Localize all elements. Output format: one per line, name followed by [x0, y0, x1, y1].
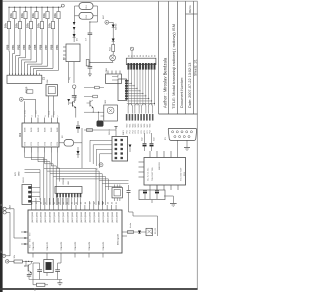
svg-text:OT1: OT1 [31, 142, 33, 146]
svg-text:868: 868 [68, 181, 70, 184]
svg-text:(ADC4)PA4: (ADC4)PA4 [84, 211, 87, 222]
svg-text:XTAL2/P2: XTAL2/P2 [60, 242, 63, 251]
svg-text:(ADC2)PA2: (ADC2)PA2 [75, 211, 78, 222]
capacitor C15 (polarized) [155, 190, 159, 192]
wire [9, 212, 11, 256]
pin circle [99, 163, 103, 167]
DB9 connector P1 [168, 129, 196, 141]
wire [172, 196, 174, 204]
U1 top pin 14 [88, 205, 90, 210]
svg-text:K6: K6 [146, 55, 148, 57]
bus from IC2 bottom to right [24, 153, 26, 158]
input jack J2 [6, 260, 9, 263]
wire [53, 96, 55, 118]
resistor R4 10k [25, 7, 27, 11]
svg-text:3: 3 [32, 116, 34, 117]
svg-text:(ADC3)PA3: (ADC3)PA3 [80, 211, 83, 222]
IC U2 bottom pin 4 [44, 147, 46, 153]
wire [73, 62, 75, 83]
wire [90, 21, 98, 23]
svg-text:(ADC5)PA5: (ADC5)PA5 [53, 211, 56, 222]
ISP wire [90, 139, 112, 141]
svg-text:(ADC3)PA3: (ADC3)PA3 [115, 211, 118, 222]
wire [24, 101, 26, 117]
svg-text:C1+ V+ C1- C2+: C1+ V+ C1- C2+ [148, 168, 150, 181]
pin circle left2 [2, 254, 5, 257]
U1 top pin 19 [111, 205, 113, 210]
wire [149, 190, 151, 199]
MCU top wires [31, 198, 33, 205]
svg-text:OT3: OT3 [45, 142, 47, 146]
IC U2 top pin 4 [44, 118, 46, 124]
svg-text:6: 6 [52, 116, 54, 117]
svg-text:(ADC5)PA5: (ADC5)PA5 [89, 211, 92, 222]
U1 bottom pin 5 [88, 253, 90, 258]
svg-text:RL1: RL1 [86, 5, 88, 8]
staircase drop wires [127, 81, 129, 106]
svg-text:MIC8: MIC8 [150, 124, 152, 128]
IC U2 top pin 3 [37, 118, 39, 124]
svg-text:7: 7 [58, 116, 60, 117]
wire [6, 208, 14, 210]
wire [176, 140, 178, 157]
capacitor C9 [72, 95, 77, 97]
capacitor C7 [89, 22, 91, 33]
svg-text:(ADC1)PA1: (ADC1)PA1 [71, 211, 74, 222]
diode D5 [139, 229, 141, 232]
capacitor C18 [55, 269, 60, 271]
svg-text:OT2: OT2 [38, 142, 40, 146]
U1 bottom pin 1 [32, 253, 34, 258]
svg-text:XTAL3/P3: XTAL3/P3 [74, 242, 77, 251]
svg-text:IN3B: IN3B [45, 127, 47, 132]
svg-text:PC0: PC0 [127, 130, 129, 133]
capacitor C16 [127, 190, 131, 192]
svg-text:10k: 10k [4, 23, 8, 28]
IC U2 top pin 1 [24, 118, 26, 124]
U1 left pin 3 [21, 243, 28, 245]
resistor R12 [112, 42, 114, 45]
resistor R7 10k [41, 7, 43, 21]
ground [170, 203, 177, 205]
VCC arrow small [67, 99, 70, 102]
wire [186, 140, 188, 147]
wire [79, 142, 83, 144]
pin circle left [3, 207, 6, 210]
svg-text:(ADC0)PA0: (ADC0)PA0 [66, 211, 69, 222]
U1 top pin 17 [102, 205, 104, 210]
diode D3 [112, 39, 115, 42]
svg-text:MIC5: MIC5 [141, 124, 143, 128]
wire [13, 209, 15, 238]
capacitor C10 (polarized) [76, 125, 80, 127]
svg-text:(ADC7)PA7: (ADC7)PA7 [98, 211, 101, 222]
svg-text:(ADC4)PA4: (ADC4)PA4 [49, 211, 52, 222]
svg-text:4: 4 [37, 116, 40, 117]
wire [75, 96, 77, 101]
svg-text:10k: 10k [20, 13, 24, 18]
svg-text:VCC GND T1OT: VCC GND T1OT [180, 167, 182, 181]
svg-text:OT5: OT5 [57, 142, 59, 146]
capacitor C12 (polarized) [143, 143, 147, 145]
svg-text:(ADC7)PA7: (ADC7)PA7 [62, 211, 65, 222]
pin circle P [19, 97, 23, 101]
svg-text:(ADC2)PA2: (ADC2)PA2 [40, 211, 43, 222]
relay coil/fuse F1 [79, 3, 93, 10]
svg-text:PC3: PC3 [135, 130, 137, 133]
U1 top pin 13 [84, 205, 86, 210]
U1 top pin 8 [62, 205, 64, 210]
cap C19 [27, 274, 31, 276]
resistor R17 [14, 260, 22, 263]
IC U2 bottom pin 2 [30, 147, 32, 153]
sheet border top [3, 0, 198, 2]
dark component blob [97, 121, 103, 127]
pin fence strip [126, 114, 127, 120]
svg-text:MIC6: MIC6 [144, 124, 146, 128]
sheet border right [196, 1, 198, 288]
ground [184, 147, 190, 149]
IC U3 [66, 44, 80, 62]
wire [164, 195, 173, 197]
U1 top pin 11 [75, 205, 77, 210]
wire [151, 200, 153, 203]
jog wires to Q2 area [99, 180, 128, 182]
wire vertical [81, 128, 83, 168]
jack X3 [146, 228, 152, 235]
svg-text:PC5: PC5 [141, 130, 143, 133]
capacitor C11 [115, 127, 117, 130]
resistor R13 [86, 60, 89, 66]
svg-text:C12: C12 [142, 138, 144, 141]
svg-text:REVs: REVs [188, 5, 192, 13]
U1 top pin 16 [97, 205, 99, 210]
svg-text:K7: K7 [149, 55, 151, 57]
staircase K2 to K3 [127, 80, 129, 82]
svg-text:XTAL4/P4: XTAL4/P4 [88, 241, 91, 251]
IC U2 bottom pin 1 [24, 147, 26, 153]
svg-text:ATmega16: ATmega16 [117, 233, 120, 245]
svg-text:IN0B: IN0B [25, 127, 27, 132]
diode D1 [73, 30, 75, 42]
IC U2 bottom pin 3 [37, 147, 39, 153]
ground rail [33, 279, 62, 281]
svg-text:(ADC1)PA1: (ADC1)PA1 [35, 211, 38, 222]
svg-text:MIC0: MIC0 [127, 124, 129, 128]
IC U2 top pin 2 [30, 118, 32, 124]
U1 bottom pin 3 [60, 253, 62, 258]
diode D4 [77, 151, 80, 154]
U1 top pin 15 [93, 205, 95, 210]
svg-text:K3: K3 [137, 55, 139, 57]
wire [6, 211, 10, 213]
VCC circle [73, 85, 76, 88]
U1 top pin 20 [115, 205, 117, 210]
vertical bus x44-53 down [43, 169, 45, 206]
resistor R14 [87, 129, 93, 132]
transistor T4 [27, 265, 29, 272]
wire [32, 263, 34, 285]
ground [58, 279, 61, 281]
IC U1 (microcontroller) box [28, 210, 122, 253]
U1 top pin 7 [57, 205, 59, 210]
svg-text:10k: 10k [31, 13, 35, 18]
relay coil/fuse F2 [79, 12, 93, 19]
ISP wire [96, 148, 112, 150]
sheet border bottom [0, 288, 198, 290]
VCC arrow [129, 145, 132, 148]
capacitor C13 (polarized) [150, 143, 154, 145]
transistor T2 [110, 55, 116, 61]
svg-text:XTAL0/P0: XTAL0/P0 [32, 242, 35, 251]
U1 right pin 1 [122, 231, 127, 233]
horizontal bus lines [44, 168, 96, 170]
svg-text:IN2B: IN2B [38, 127, 40, 132]
resistor R6 10k [36, 7, 38, 11]
U1 top pin 4 [44, 205, 46, 210]
wire from MAX to MCU [129, 211, 134, 213]
svg-text:Document Number:: Document Number: [180, 77, 184, 108]
transistor T3 [72, 102, 74, 107]
resistor R10 10k [58, 7, 60, 11]
wire VCC to K3 [131, 51, 133, 58]
IC U2 top pin 5 [50, 118, 52, 124]
svg-text:10k: 10k [37, 23, 41, 28]
svg-text:10k: 10k [15, 23, 19, 28]
svg-text:K1: K1 [131, 55, 133, 57]
svg-text:10k: 10k [42, 13, 46, 18]
IC U2 box [22, 123, 59, 147]
svg-text:K0: K0 [128, 55, 130, 57]
U1 bottom pin 6 [102, 253, 104, 258]
svg-text:IC2: IC2 [18, 132, 22, 137]
svg-text:(ADC3)PA3: (ADC3)PA3 [44, 211, 47, 222]
wire to M1 [84, 111, 104, 113]
U1 bottom pin 4 [74, 253, 76, 258]
svg-text:XTAL1/P1: XTAL1/P1 [46, 242, 49, 251]
svg-text:IN5B: IN5B [57, 127, 59, 132]
resistor R16 [37, 283, 45, 286]
U1 top pin 18 [106, 205, 108, 210]
svg-text:K5: K5 [143, 55, 145, 57]
wire [74, 6, 76, 22]
svg-text:Date: 2007-07-22 13:02:13: Date: 2007-07-22 13:02:13 [188, 63, 192, 108]
IC U5 MAX232 box [144, 158, 186, 186]
crystal Y1 [46, 258, 48, 260]
svg-text:GOLD: GOLD [23, 177, 25, 183]
U1 top pin 1 [31, 205, 33, 210]
svg-text:IRIN: IRIN [25, 110, 27, 114]
resistor R18 [95, 86, 100, 89]
svg-text:1M: 1M [35, 288, 37, 291]
svg-text:PC2: PC2 [132, 130, 134, 133]
svg-text:RL2: RL2 [86, 15, 88, 18]
svg-text:GOLD: GOLD [109, 129, 111, 135]
wire [97, 16, 99, 22]
title block bottom edge [159, 113, 198, 115]
svg-text:PC8: PC8 [150, 130, 152, 133]
svg-text:OT0: OT0 [25, 142, 27, 146]
capacitor C8 [89, 42, 91, 67]
IC U2 bottom pin 6 [56, 147, 58, 153]
svg-text:RS_RX: RS_RX [155, 227, 157, 234]
wires top-left of SV4 [25, 169, 41, 171]
svg-text:(ADC0)PA0: (ADC0)PA0 [102, 211, 105, 222]
title block frame [158, 1, 160, 114]
VCC bus wire [9, 6, 61, 8]
svg-text:R1IN: R1IN [184, 171, 186, 176]
svg-text:K9: K9 [155, 55, 157, 57]
svg-text:BAT42: BAT42 [115, 23, 118, 30]
wires into K2 left [112, 76, 118, 78]
IC U4 [46, 85, 57, 96]
IC U2 top pin 6 [56, 118, 58, 124]
svg-text:RX1: RX1 [30, 239, 32, 242]
resistor R8 10k [47, 7, 49, 11]
IC U2 bottom pin 5 [50, 147, 52, 153]
svg-text:SDA: SDA [48, 110, 51, 115]
ISP wire [93, 144, 112, 146]
svg-text:IN1B: IN1B [31, 127, 33, 132]
resistor R1 10k [8, 7, 10, 21]
svg-text:T1IN R1OT T2IN: T1IN R1OT T2IN [152, 167, 154, 181]
VCC symbol [61, 4, 64, 7]
svg-text:Sheets: 1/1: Sheets: 1/1 [194, 59, 198, 76]
svg-text:GND: GND [19, 171, 21, 176]
svg-text:(ADC0)PA0: (ADC0)PA0 [31, 211, 34, 222]
wire to ISP pull [84, 129, 116, 131]
svg-text:Author : Miroslav Bendzala: Author : Miroslav Bendzala [163, 57, 168, 108]
wire [90, 61, 113, 63]
svg-text:(ADC6)PA6: (ADC6)PA6 [58, 211, 61, 222]
socket strip row (scallops) [128, 104, 132, 108]
connector Z1 (12-pin header) [7, 75, 42, 83]
svg-text:(ADC6)PA6: (ADC6)PA6 [93, 211, 96, 222]
svg-text:MAX232: MAX232 [158, 161, 161, 170]
capacitor C14 (polarized) [143, 190, 147, 192]
U1 left pin 2 [21, 237, 28, 239]
resistor R2 10k [14, 7, 16, 11]
wire staircase resistors to connector Z1 [8, 42, 10, 52]
cap group outline [139, 190, 165, 200]
ISP wire [100, 153, 112, 155]
ground [88, 73, 92, 75]
wire [23, 98, 35, 100]
small box [27, 90, 33, 93]
svg-text:TITLE: Modul transmisji radio: TITLE: Modul transmisji radiowej ( radio… [171, 24, 176, 109]
wire [109, 21, 114, 23]
resistor R19 [93, 95, 98, 98]
U1 top pin 10 [71, 205, 73, 210]
svg-text:10k: 10k [9, 13, 13, 18]
svg-text:MIC2: MIC2 [132, 124, 134, 128]
U1 right pin 2 [122, 235, 127, 237]
svg-text:MIC1: MIC1 [129, 124, 131, 128]
svg-text:10k: 10k [48, 23, 52, 28]
wire [14, 237, 21, 239]
svg-text:K2: K2 [134, 55, 136, 57]
resistor R15 [127, 231, 146, 233]
svg-text:K8: K8 [152, 55, 154, 57]
svg-text:MIC7: MIC7 [147, 124, 149, 128]
svg-text:PC1: PC1 [129, 130, 131, 133]
U1 left pin 1 [21, 231, 28, 233]
resistor R5 10k [30, 7, 32, 21]
resonator X2 [64, 140, 74, 147]
svg-text:RX0: RX0 [30, 233, 32, 236]
svg-text:(ADC1)PA1: (ADC1)PA1 [106, 211, 109, 222]
U1 bottom pin 2 [46, 253, 48, 258]
diode D2 [112, 22, 114, 24]
svg-text:RX2: RX2 [30, 245, 32, 248]
svg-text:IN4B: IN4B [50, 127, 53, 132]
svg-text:ZAS: ZAS [9, 205, 12, 210]
wire [75, 107, 77, 117]
svg-text:10k: 10k [26, 23, 30, 28]
resistor R3 10k [19, 7, 21, 21]
wire [35, 99, 37, 117]
REV cell divider [186, 13, 198, 15]
svg-text:DQ: DQ [69, 77, 71, 80]
svg-text:PC7: PC7 [147, 130, 149, 133]
svg-text:MIC3: MIC3 [135, 124, 137, 128]
svg-text:MIK: MIK [105, 99, 107, 103]
svg-text:RFM12: RFM12 [63, 177, 65, 184]
U1 top pin 5 [48, 205, 50, 210]
wire [68, 62, 70, 83]
svg-text:5: 5 [45, 116, 47, 117]
svg-text:(ADC2)PA2: (ADC2)PA2 [111, 211, 114, 222]
U1 top pin 12 [79, 205, 81, 210]
svg-text:XTAL5/P5: XTAL5/P5 [102, 242, 105, 251]
sheet border left (dark scan edge) [0, 0, 3, 292]
svg-text:ZAS: ZAS [105, 68, 108, 73]
crystal module Q2 [112, 188, 122, 198]
U1 top pin 2 [35, 205, 37, 210]
VCC arrow symbols [73, 22, 76, 25]
pin circle ANT [105, 20, 109, 24]
wire [6, 255, 10, 257]
U1 top pin 6 [53, 205, 55, 210]
svg-text:C13: C13 [154, 138, 156, 141]
bus bends into U1 [95, 178, 97, 205]
svg-text:2: 2 [25, 116, 27, 117]
svg-text:10k: 10k [53, 13, 57, 18]
U1 top pin 3 [39, 205, 41, 210]
svg-text:PC6: PC6 [144, 130, 146, 133]
capacitor C17 [37, 269, 42, 271]
U1 top pin 9 [66, 205, 68, 210]
wire [48, 96, 50, 118]
wire [97, 6, 99, 16]
resistor R9 10k [52, 7, 54, 21]
transistor T5 [89, 101, 91, 107]
